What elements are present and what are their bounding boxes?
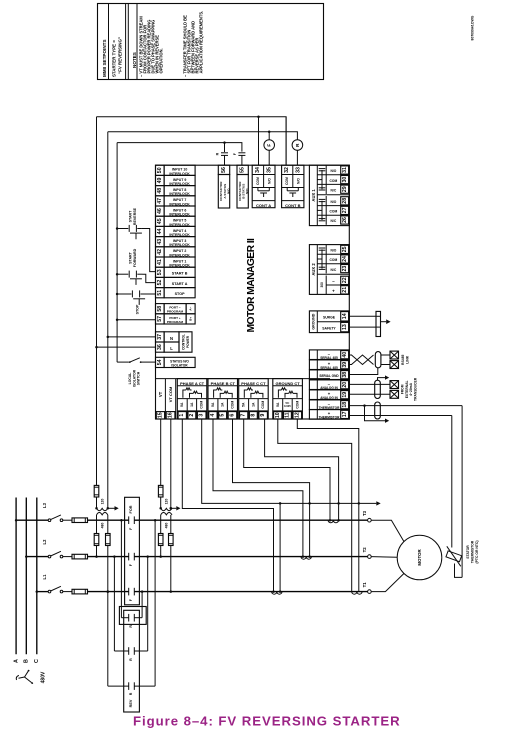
wire stub terminal 57 — [117, 319, 155, 321]
wire reverse feed L2 to R2 — [113, 557, 115, 651]
svg-text:SAFETY: SAFETY — [322, 326, 336, 330]
ground surge safety box terminals 14 13 — [309, 311, 349, 333]
svg-text:ISOLATOR: ISOLATOR — [171, 363, 188, 367]
svg-text:9: 9 — [260, 414, 266, 417]
node transformer neutral — [107, 507, 110, 510]
svg-text:+: + — [332, 289, 335, 294]
svg-text:42: 42 — [157, 249, 163, 255]
svg-text:START: START — [128, 251, 132, 264]
phase C CT group terminals 7 8 9 — [239, 379, 269, 419]
svg-text:COM: COM — [200, 401, 204, 409]
svg-text:45: 45 — [157, 218, 163, 224]
wire analog in plus — [349, 393, 390, 395]
fuse control transformer secondary — [158, 485, 163, 497]
svg-text:38: 38 — [342, 372, 348, 378]
svg-text:START: START — [128, 210, 132, 223]
terminal 46 INTERLOCK INPUT 6 — [156, 206, 165, 216]
svg-text:53: 53 — [157, 269, 163, 275]
wire terminal 6 to phase B CT return — [233, 419, 310, 557]
node rail3-R-aux — [223, 141, 226, 144]
terminal 19 ANALOG IN + — [309, 390, 349, 400]
svg-text:APPLICATION REQUIREMENTS.: APPLICATION REQUIREMENTS. — [199, 11, 204, 74]
svg-text:44: 44 — [157, 229, 163, 235]
svg-text:PHASE A CT: PHASE A CT — [180, 381, 204, 386]
svg-text:N/O: N/O — [330, 249, 336, 253]
mechanical interlock box — [119, 607, 146, 625]
ground arrow transformer — [171, 507, 177, 509]
wire terminal 3 CT common to ground arrow — [202, 419, 377, 503]
svg-text:STOP: STOP — [175, 292, 186, 296]
contactor A output terminals 34 35 — [252, 165, 275, 208]
svg-text:GROUND: GROUND — [311, 313, 315, 329]
svg-text:6: 6 — [229, 414, 235, 417]
wire safety ground — [349, 326, 376, 328]
wire T3 to motor — [371, 520, 404, 541]
svg-text:TRANSDUCER: TRANSDUCER — [413, 377, 417, 401]
terminal 47 INTERLOCK INPUT 7 — [156, 196, 165, 206]
disconnect switch L3 — [48, 519, 51, 522]
Motor Manager II block outline — [156, 165, 350, 419]
svg-text:COM: COM — [230, 401, 234, 409]
contact R bottom — [128, 682, 130, 690]
wire N rail — [108, 132, 298, 140]
svg-text:20: 20 — [342, 382, 348, 388]
svg-text:5: 5 — [220, 414, 226, 417]
terminal 36 L supply — [156, 342, 165, 352]
wire aux leg down to isolator switch — [116, 143, 118, 363]
svg-text:PHASE B CT: PHASE B CT — [211, 381, 236, 386]
svg-text:1A: 1A — [251, 402, 255, 407]
svg-text:CONTROL: CONTROL — [182, 334, 186, 350]
svg-text:Figure 8–4: FV REVERSING START: Figure 8–4: FV REVERSING STARTER — [133, 713, 401, 728]
shield analog — [375, 380, 381, 398]
stator thermistor symbol — [442, 546, 466, 566]
terminal T2 — [368, 555, 372, 559]
svg-text:49: 49 — [157, 178, 163, 184]
terminal 54 isolator status — [156, 357, 165, 367]
phase A CT group terminals 1 2 3 — [177, 379, 207, 419]
terminal 44 INTERLOCK INPUT 4 — [156, 226, 165, 236]
svg-text:F: F — [129, 598, 133, 601]
terminal 56 contactor A status — [218, 165, 229, 174]
AUX 2 relay box terminals 25 24 23 22 21 — [309, 245, 349, 295]
terminal 39 SERIAL 485 + — [309, 360, 349, 370]
svg-text:16: 16 — [168, 412, 174, 418]
switch LOCAL ISOLATOR — [117, 361, 129, 363]
svg-text:POWER: POWER — [186, 335, 190, 348]
wire T2 to motor — [371, 556, 397, 559]
wire terminal 10 to ground CT — [278, 419, 352, 592]
terminal 40 SERIAL 485 − — [309, 350, 349, 360]
terminal 20 ANALOG IN − — [309, 380, 349, 390]
terminal 55 contactor B status — [237, 165, 248, 174]
svg-text:N/C: N/C — [331, 188, 337, 192]
svg-text:F: F — [233, 152, 237, 155]
svg-text:10: 10 — [275, 412, 281, 418]
terminal 37 N supply — [156, 332, 165, 342]
shield thermistor — [375, 402, 381, 419]
svg-text:REV: REV — [129, 699, 133, 707]
terminal 58 program port — [156, 304, 165, 314]
svg-text:OPERATION.: OPERATION. — [158, 48, 163, 73]
svg-text:F: F — [129, 527, 133, 530]
svg-text:34: 34 — [255, 167, 261, 173]
ground arrow — [381, 321, 387, 323]
svg-text:32: 32 — [284, 167, 290, 173]
node N-37 — [107, 336, 110, 339]
svg-text:PROGRAM: PROGRAM — [167, 320, 184, 324]
svg-text:7: 7 — [241, 414, 247, 417]
svg-text:(PTC OR NTC): (PTC OR NTC) — [475, 541, 479, 564]
contact F — [128, 588, 130, 596]
svg-text:SURGE: SURGE — [323, 316, 336, 320]
wire terminal 7 to phase C CT — [244, 419, 330, 520]
svg-text:30: 30 — [342, 177, 348, 183]
svg-text:4: 4 — [210, 414, 216, 417]
svg-text:THERMISTOR: THERMISTOR — [470, 540, 474, 563]
contact R — [128, 614, 130, 622]
wire serial gnd shield drain — [349, 368, 378, 375]
svg-text:COM: COM — [285, 177, 289, 185]
fuse transformer primary right — [170, 515, 172, 534]
contact F — [128, 553, 130, 561]
node CT common — [358, 502, 361, 505]
node CT common — [279, 502, 282, 505]
phase line L2 — [26, 556, 48, 558]
wire N leg down to terminal 37 and CPT — [107, 132, 109, 509]
wire R2 contact row — [114, 650, 128, 652]
contactor B output terminals 32 33 — [282, 165, 304, 208]
svg-text:1A: 1A — [221, 402, 225, 407]
svg-text:MOTOR: MOTOR — [417, 549, 422, 566]
svg-text:1A: 1A — [190, 402, 194, 407]
svg-text:5A: 5A — [242, 402, 246, 407]
svg-text:SWITCH: SWITCH — [137, 371, 141, 385]
svg-text:120: 120 — [101, 499, 105, 505]
terminal 41 INTERLOCK INPUT 1 — [156, 257, 165, 267]
svg-text:STATOR: STATOR — [466, 545, 470, 559]
wire to F coil — [268, 132, 270, 140]
svg-text:120: 120 — [165, 499, 169, 505]
svg-text:24: 24 — [342, 256, 348, 262]
svg-text:807099A6.DWG: 807099A6.DWG — [471, 15, 475, 40]
svg-text:N/O: N/O — [330, 169, 336, 173]
svg-text:55: 55 — [240, 167, 246, 173]
wire L2 to motor terminals — [88, 556, 129, 558]
terminal 49 INTERLOCK INPUT 9 — [156, 175, 165, 185]
node transformer neutral — [170, 507, 173, 510]
wire primary left to L2 — [96, 546, 98, 557]
svg-text:18: 18 — [342, 402, 348, 408]
svg-text:480V: 480V — [41, 671, 47, 683]
svg-text:41: 41 — [157, 259, 163, 265]
phase B CT group terminals 4 5 6 — [208, 379, 238, 419]
svg-text:28: 28 — [342, 198, 348, 204]
terminal 57 program port — [156, 314, 165, 324]
node rail2-F-coil — [268, 130, 271, 133]
wire terminal 12 to ground CT — [297, 419, 359, 592]
wire terminal 16 to VT neutral — [170, 419, 172, 508]
supply voltage label box — [179, 332, 192, 352]
thermistor shield drain arrow — [365, 406, 386, 421]
wire analog in minus — [349, 383, 390, 385]
svg-text:L1: L1 — [42, 574, 47, 580]
analog shield drain arrow — [378, 378, 386, 381]
svg-text:VT COM: VT COM — [168, 386, 173, 402]
svg-text:NOTES: NOTES — [132, 52, 137, 68]
svg-text:COM: COM — [330, 210, 338, 214]
CT phase A on L1 — [272, 592, 282, 595]
wire terminal 4 to phase B CT — [213, 419, 303, 557]
ground arrow transformer — [108, 507, 115, 509]
transformer 480:120 windings — [96, 497, 98, 508]
svg-text:2: 2 — [189, 414, 195, 417]
svg-text:480: 480 — [101, 523, 105, 529]
svg-text:L: L — [170, 346, 173, 351]
svg-text:COM: COM — [256, 177, 260, 185]
wire thermistor bottom link — [455, 564, 463, 578]
svg-text:MMII SETPOINTS: MMII SETPOINTS — [102, 39, 107, 77]
svg-text:5A: 5A — [211, 402, 215, 407]
svg-text:15: 15 — [157, 412, 163, 418]
fuse transformer primary right — [107, 515, 109, 534]
terminal 48 INTERLOCK INPUT 8 — [156, 186, 165, 196]
svg-text:START A: START A — [172, 282, 188, 286]
svg-text:27: 27 — [342, 207, 348, 213]
wire primary right to L1 — [107, 546, 109, 592]
termination transducer boxes — [390, 381, 399, 389]
svg-text:R: R — [129, 658, 133, 661]
wire thermistor plus — [349, 415, 452, 417]
node thermistor shield — [363, 404, 366, 407]
svg-text:14: 14 — [342, 313, 348, 319]
svg-text:5A: 5A — [180, 402, 184, 407]
svg-text:300: 300 — [320, 282, 324, 288]
svg-text:N/O: N/O — [245, 188, 249, 194]
svg-text:48: 48 — [157, 188, 163, 194]
wire R3 to T3 — [154, 520, 156, 686]
svg-text:29: 29 — [342, 186, 348, 192]
svg-text:N/C: N/C — [331, 268, 337, 272]
wire reverse feed L3 to R1 — [120, 520, 122, 618]
wire start forward to terminal 52 — [143, 274, 156, 282]
svg-text:26: 26 — [342, 217, 348, 223]
svg-text:MOTOR MANAGER II: MOTOR MANAGER II — [246, 238, 257, 333]
wire reverse feed L1 to R3 — [107, 592, 109, 687]
svg-text:5A: 5A — [276, 402, 280, 407]
svg-text:N/O: N/O — [296, 178, 300, 184]
svg-text:50: 50 — [157, 167, 163, 173]
wire stub terminal 36 — [97, 346, 156, 348]
wire to terminal 32 — [285, 117, 287, 166]
wire phase A CT return — [279, 503, 281, 591]
svg-text:31: 31 — [342, 167, 348, 173]
svg-text:STARTER TYPE =: STARTER TYPE = — [112, 40, 117, 77]
wire stub terminal 37 — [108, 336, 156, 338]
wire thermistor down inner — [451, 416, 453, 548]
wire R1 contact row — [121, 617, 128, 619]
wire L1 to motor terminals — [88, 591, 129, 593]
wire R1 to T1 — [141, 592, 143, 618]
CT phase C on L3 — [328, 520, 338, 523]
svg-text:VT: VT — [158, 391, 163, 397]
wire surge ground — [349, 315, 376, 317]
AUX 1 relay box terminals 31 30 29 28 27 26 — [309, 165, 349, 225]
svg-text:11: 11 — [284, 412, 290, 418]
contactor F box — [125, 497, 140, 605]
svg-text:47: 47 — [157, 198, 163, 204]
CT ground on L1 — [352, 592, 362, 595]
svg-text:F: F — [267, 144, 272, 147]
svg-text:B: B — [24, 659, 30, 663]
svg-text:AUX 1: AUX 1 — [311, 189, 316, 202]
svg-text:REVERSE: REVERSE — [133, 207, 137, 225]
svg-text:PROGRAM: PROGRAM — [167, 310, 184, 314]
wire thermistor down outer — [461, 406, 463, 578]
svg-text:23: 23 — [342, 266, 348, 272]
svg-text:C: C — [34, 659, 40, 663]
svg-text:COM: COM — [261, 401, 265, 409]
svg-text:35: 35 — [266, 167, 272, 173]
svg-text:AUX 2: AUX 2 — [311, 263, 316, 276]
svg-text:R: R — [129, 625, 133, 628]
svg-text:8: 8 — [250, 414, 256, 417]
svg-text:21: 21 — [342, 287, 348, 293]
svg-text:1: 1 — [179, 414, 185, 417]
notes box frame — [98, 4, 324, 80]
wire thermistor minus — [349, 405, 462, 407]
fuse L3 — [72, 518, 88, 523]
wire start reverse to terminal 53 — [142, 229, 156, 272]
svg-text:56: 56 — [221, 167, 227, 173]
fuse transformer primary left — [96, 515, 98, 534]
svg-text:COM: COM — [295, 401, 299, 409]
transformer 480:120 windings — [160, 497, 162, 508]
svg-text:T1: T1 — [362, 582, 367, 588]
wire L leg down to terminal 36 and CPT — [96, 117, 98, 486]
svg-text:33: 33 — [295, 167, 301, 173]
fuse transformer primary left — [160, 515, 162, 534]
motor — [397, 535, 442, 580]
contact F aux seal-in — [238, 152, 245, 154]
svg-text:57: 57 — [157, 316, 163, 322]
svg-text:START B: START B — [172, 272, 188, 276]
svg-text:−: − — [332, 279, 335, 284]
phase line L3 — [16, 519, 48, 521]
terminal 53 START B — [156, 267, 165, 277]
disconnect switch L2 — [48, 555, 51, 558]
contact F — [128, 516, 130, 524]
svg-text:19: 19 — [342, 392, 348, 398]
bottom strip left edge line — [156, 378, 331, 380]
svg-text:T3: T3 — [362, 510, 367, 516]
terminal 43 INTERLOCK INPUT 3 — [156, 237, 165, 247]
shield serial — [375, 352, 381, 368]
node CT common — [308, 502, 311, 505]
fuse L1 — [72, 589, 88, 594]
svg-text:N/O: N/O — [226, 188, 230, 194]
bus A — [15, 498, 17, 655]
CT phase B on L2 — [301, 557, 311, 560]
bus B — [25, 498, 27, 655]
contact R — [128, 647, 130, 655]
terminal 52 START A — [156, 277, 165, 287]
wire L rail — [97, 117, 287, 166]
terminal 22 minus — [341, 276, 349, 284]
svg-text:SERIAL GND: SERIAL GND — [319, 374, 339, 378]
terminal 21 plus — [341, 286, 349, 294]
wire terminal 1 to phase A CT — [182, 419, 273, 592]
contact R aux seal-in — [224, 143, 226, 152]
svg-text:54: 54 — [157, 359, 163, 365]
wire to terminal 34 — [258, 117, 260, 166]
svg-text:“FV REVERSING”: “FV REVERSING” — [118, 37, 123, 74]
ground bus bar — [376, 311, 381, 336]
svg-text:R: R — [129, 692, 133, 695]
svg-text:58: 58 — [157, 306, 163, 312]
svg-text:46: 46 — [157, 208, 163, 214]
fuse L2 — [72, 554, 88, 559]
svg-text:FORWARD: FORWARD — [133, 248, 137, 267]
node CT common — [337, 502, 340, 505]
svg-text:A−: A− — [189, 306, 193, 310]
svg-text:N/O: N/O — [330, 200, 336, 204]
svg-text:CONT B: CONT B — [285, 203, 300, 208]
svg-text:37: 37 — [157, 334, 163, 340]
node rail1-34 — [257, 115, 260, 118]
wire R2 to T2 — [147, 557, 149, 651]
svg-text:39: 39 — [342, 362, 348, 368]
terminal 38 SERIAL GND — [309, 370, 349, 380]
svg-text:LINK: LINK — [405, 355, 409, 363]
svg-text:17: 17 — [342, 411, 348, 417]
svg-text:13: 13 — [342, 324, 348, 330]
svg-text:FOR: FOR — [129, 505, 133, 513]
ground CT group terminals 10 11 12 — [273, 379, 303, 419]
svg-text:T2: T2 — [362, 547, 367, 553]
termination RS485 boxes — [390, 351, 399, 359]
svg-text:22: 22 — [342, 277, 348, 283]
svg-text:0.025: 0.025 — [284, 404, 291, 408]
wire aux rail — [117, 143, 242, 152]
pushbutton STOP — [116, 293, 119, 296]
svg-text:F: F — [129, 563, 133, 566]
terminal 42 INTERLOCK INPUT 2 — [156, 247, 165, 257]
svg-text:THERMISTOR: THERMISTOR — [319, 416, 340, 420]
wire primary left to L2 — [160, 546, 162, 557]
svg-text:COM: COM — [330, 179, 338, 183]
svg-text:RS485: RS485 — [401, 355, 405, 365]
wire R3 contact row — [108, 685, 129, 687]
terminal 18 THERMISTOR − — [309, 400, 349, 410]
wire terminal 9 to phase C CT return — [265, 419, 339, 520]
phase line L1 — [37, 591, 48, 593]
svg-text:R: R — [295, 143, 300, 147]
svg-text:52: 52 — [157, 280, 163, 286]
svg-text:COM: COM — [330, 258, 338, 262]
svg-text:L2: L2 — [42, 539, 47, 545]
terminal T3 — [368, 518, 372, 522]
terminal 50 INTERLOCK INPUT 10 — [156, 165, 165, 175]
svg-text:51: 51 — [157, 290, 163, 296]
terminal 45 INTERLOCK INPUT 5 — [156, 216, 165, 226]
wire serial 485 twisted pair — [349, 354, 352, 356]
bus C — [36, 498, 38, 655]
terminal 51 STOP — [156, 288, 165, 298]
source wye symbol — [25, 671, 29, 677]
svg-text:3: 3 — [199, 414, 205, 417]
svg-text:STOP: STOP — [136, 304, 140, 314]
